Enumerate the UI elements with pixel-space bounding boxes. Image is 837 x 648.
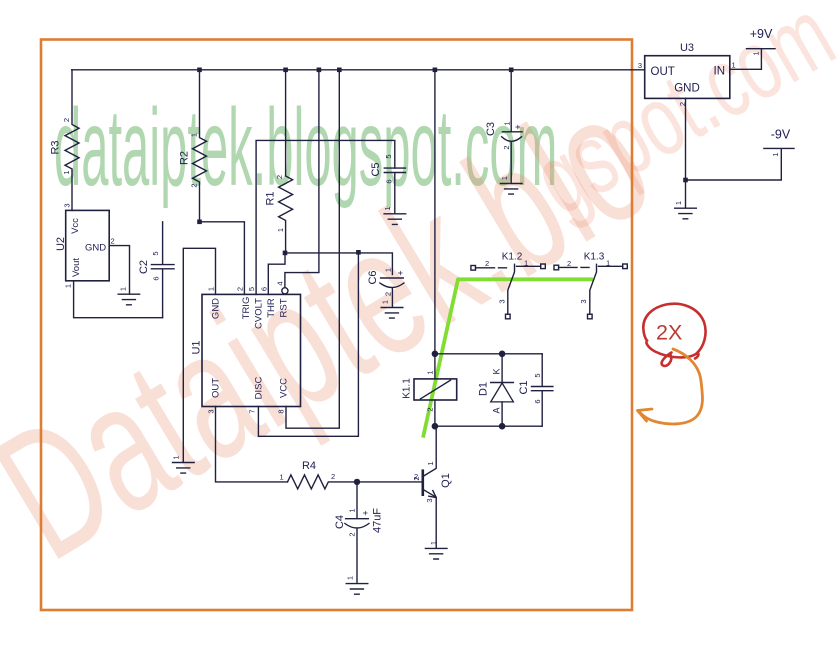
svg-text:GND: GND xyxy=(674,83,700,95)
svg-text:3: 3 xyxy=(207,409,216,413)
svg-text:1: 1 xyxy=(172,455,181,459)
node top rail K1.1 riser xyxy=(433,68,438,73)
svg-text:2: 2 xyxy=(348,532,357,536)
svg-text:1: 1 xyxy=(207,287,216,291)
ground (U3) xyxy=(674,201,696,219)
svg-text:4: 4 xyxy=(276,281,285,285)
ground (C3) xyxy=(500,176,522,194)
svg-text:2: 2 xyxy=(190,183,199,187)
svg-text:K1.2: K1.2 xyxy=(502,252,523,263)
wire relay bottom rail xyxy=(435,425,542,427)
svg-text:CVOLT: CVOLT xyxy=(253,298,264,329)
svg-text:R1: R1 xyxy=(265,191,277,205)
svg-text:5: 5 xyxy=(384,154,393,158)
svg-text:R3: R3 xyxy=(50,140,62,154)
node U3 gnd / -9V xyxy=(683,178,688,183)
svg-text:C3: C3 xyxy=(485,122,497,136)
border frame (decorative) xyxy=(41,40,632,611)
svg-text:RST: RST xyxy=(278,298,289,317)
svg-text:2: 2 xyxy=(275,175,284,179)
wire: +V top rail xyxy=(72,69,645,71)
svg-text:1: 1 xyxy=(606,259,610,268)
svg-text:2: 2 xyxy=(331,472,335,481)
wire U2 pin1 (Vout) to C2 bottom xyxy=(74,281,163,318)
wire node R2/C2 to U1 TRIG xyxy=(200,222,245,295)
resistor R3 xyxy=(50,70,80,211)
svg-text:5: 5 xyxy=(247,287,256,291)
voltage regulator U2 xyxy=(55,203,115,288)
svg-text:Vout: Vout xyxy=(71,258,82,277)
svg-text:IN: IN xyxy=(714,66,726,78)
red 2X annotation circle xyxy=(643,304,705,366)
voltage regulator U3 xyxy=(638,42,736,106)
svg-text:3: 3 xyxy=(638,61,642,70)
svg-text:OUT: OUT xyxy=(210,378,221,398)
svg-text:6: 6 xyxy=(533,399,542,403)
svg-text:1: 1 xyxy=(381,300,390,304)
node D1 bottom xyxy=(499,423,506,430)
svg-text:2: 2 xyxy=(384,292,393,296)
svg-text:1: 1 xyxy=(276,228,285,232)
svg-text:7: 7 xyxy=(248,409,257,413)
diode D1 xyxy=(478,354,514,426)
wire U1 RST pin4 riser to top rail xyxy=(285,70,319,287)
green highlighted wire from Q1 collector node to relay contacts K1.2/K1.3 xyxy=(423,279,593,437)
relay contact K1.2 xyxy=(471,252,545,319)
svg-text:5: 5 xyxy=(151,251,160,255)
wire U1 GND pin1 to ground xyxy=(183,248,215,462)
capacitor C6 (electrolytic) xyxy=(367,268,406,307)
svg-text:1: 1 xyxy=(348,508,357,512)
-9V power symbol xyxy=(686,128,795,181)
svg-text:2: 2 xyxy=(412,476,421,480)
svg-text:6: 6 xyxy=(385,179,394,183)
svg-text:1: 1 xyxy=(500,176,509,180)
svg-text:-9V: -9V xyxy=(771,128,791,142)
wire U1 OUT pin3 to R4 xyxy=(216,407,288,482)
capacitor C5 xyxy=(370,154,405,213)
capacitor C2 xyxy=(138,222,174,318)
svg-text:GND: GND xyxy=(85,243,106,254)
svg-text:+: + xyxy=(361,510,371,515)
svg-text:2: 2 xyxy=(62,118,71,122)
svg-text:C4: C4 xyxy=(334,515,346,529)
svg-text:3: 3 xyxy=(63,203,72,207)
node relay bottom left xyxy=(432,423,439,430)
wire U3 GND pin2 down xyxy=(685,98,687,207)
transistor Q1 xyxy=(412,426,452,548)
ground (C6) xyxy=(381,300,403,318)
svg-text:K: K xyxy=(492,368,502,374)
IC U1 (555 timer) xyxy=(191,281,301,413)
capacitor C4 (electrolytic 47uF) xyxy=(334,482,384,583)
svg-text:2: 2 xyxy=(426,407,435,411)
svg-text:2: 2 xyxy=(111,237,115,246)
ground (U1 pin1) xyxy=(172,455,195,473)
svg-text:U1: U1 xyxy=(191,340,203,354)
ground (C5) xyxy=(383,206,406,224)
node top rail RST riser xyxy=(317,68,322,73)
svg-text:TRIG: TRIG xyxy=(241,297,252,320)
svg-text:GND: GND xyxy=(210,298,221,319)
svg-text:1: 1 xyxy=(119,287,128,291)
svg-text:1: 1 xyxy=(384,268,393,272)
svg-text:2: 2 xyxy=(485,259,489,268)
svg-text:1: 1 xyxy=(190,133,199,137)
svg-text:2: 2 xyxy=(236,287,245,291)
resistor R4 xyxy=(280,460,423,489)
resistor R1 xyxy=(265,70,293,253)
svg-text:OUT: OUT xyxy=(651,66,675,78)
node R2/C2/TRIG xyxy=(197,220,202,225)
svg-text:1: 1 xyxy=(674,201,683,205)
svg-text:1: 1 xyxy=(426,370,435,374)
node top rail R1 xyxy=(283,68,288,73)
ground (Q1 emitter) xyxy=(425,541,447,559)
svg-text:R2: R2 xyxy=(179,151,191,165)
node R4/C4/Q1 base xyxy=(354,479,360,485)
svg-text:8: 8 xyxy=(277,409,286,413)
svg-text:C1: C1 xyxy=(518,380,530,394)
svg-text:1: 1 xyxy=(503,121,512,125)
svg-text:1: 1 xyxy=(383,206,392,210)
relay coil K1.1 xyxy=(402,354,457,426)
svg-text:K1.3: K1.3 xyxy=(584,252,605,263)
svg-text:DISC: DISC xyxy=(253,377,264,400)
pin 4 RST inverter circle xyxy=(282,288,288,294)
node top rail C3 xyxy=(509,68,514,73)
svg-text:+: + xyxy=(513,124,523,129)
svg-text:VCC: VCC xyxy=(278,378,289,398)
wire U2 pin2 to ground xyxy=(109,246,129,294)
svg-text:1: 1 xyxy=(524,259,528,268)
svg-text:K1.1: K1.1 xyxy=(402,378,413,399)
svg-text:Q1: Q1 xyxy=(440,473,452,488)
ground (C4) xyxy=(346,576,368,594)
wire U1 CVOLT pin5 riser to C5 xyxy=(256,140,395,294)
svg-text:2X: 2X xyxy=(656,321,682,345)
svg-text:+: + xyxy=(396,270,406,275)
node R1 bottom / THR xyxy=(283,251,288,256)
svg-text:U3: U3 xyxy=(680,42,694,54)
svg-text:3: 3 xyxy=(498,299,507,303)
svg-text:U2: U2 xyxy=(55,237,67,251)
svg-text:C6: C6 xyxy=(367,270,379,284)
svg-text:1: 1 xyxy=(426,461,435,465)
svg-text:1: 1 xyxy=(732,61,736,70)
node relay top left xyxy=(432,351,439,358)
svg-text:1: 1 xyxy=(62,170,71,174)
svg-text:C2: C2 xyxy=(138,260,150,274)
svg-text:6: 6 xyxy=(152,276,161,280)
svg-text:3: 3 xyxy=(425,498,434,502)
capacitor C1 xyxy=(518,354,553,426)
svg-text:1: 1 xyxy=(771,152,780,156)
+9V power symbol xyxy=(730,27,775,69)
wire U1 VCC pin8 riser to top rail xyxy=(286,70,339,428)
svg-text:Vcc: Vcc xyxy=(70,218,81,234)
node THR rail / DISC xyxy=(356,250,361,255)
svg-text:6: 6 xyxy=(259,287,268,291)
wire top rail to relay K1.1 xyxy=(434,70,436,354)
svg-text:D1: D1 xyxy=(478,382,490,396)
svg-text:A: A xyxy=(492,407,502,413)
svg-text:2: 2 xyxy=(567,259,571,268)
svg-text:+9V: +9V xyxy=(750,27,773,41)
wire top rail to C3 xyxy=(510,70,512,132)
svg-text:3: 3 xyxy=(579,299,588,303)
svg-text:1: 1 xyxy=(64,284,73,288)
svg-text:5: 5 xyxy=(533,373,542,377)
relay contact K1.3 xyxy=(554,252,627,319)
node top rail VCC riser xyxy=(337,68,342,73)
ground (U2 pin2) xyxy=(118,287,139,305)
svg-text:1: 1 xyxy=(346,576,355,580)
node top rail R2 xyxy=(197,68,202,73)
orange annotation arrow xyxy=(638,349,703,424)
wire U1 THR pin6 to R1 bottom node xyxy=(268,253,285,295)
svg-text:C5: C5 xyxy=(370,162,382,176)
svg-text:47uF: 47uF xyxy=(372,508,384,533)
svg-text:1: 1 xyxy=(429,541,438,545)
svg-text:2: 2 xyxy=(502,145,511,149)
capacitor C3 (electrolytic) xyxy=(485,121,523,183)
svg-text:THR: THR xyxy=(266,298,277,318)
wire relay top rail xyxy=(435,353,542,355)
wire U1 DISC pin7 to THR rail xyxy=(258,252,358,436)
svg-text:1: 1 xyxy=(752,51,761,55)
node D1 top xyxy=(499,351,506,358)
svg-text:R4: R4 xyxy=(302,460,316,472)
wire THR rail to C6 xyxy=(285,253,392,275)
resistor R2 xyxy=(179,70,207,222)
svg-text:1: 1 xyxy=(280,473,284,482)
